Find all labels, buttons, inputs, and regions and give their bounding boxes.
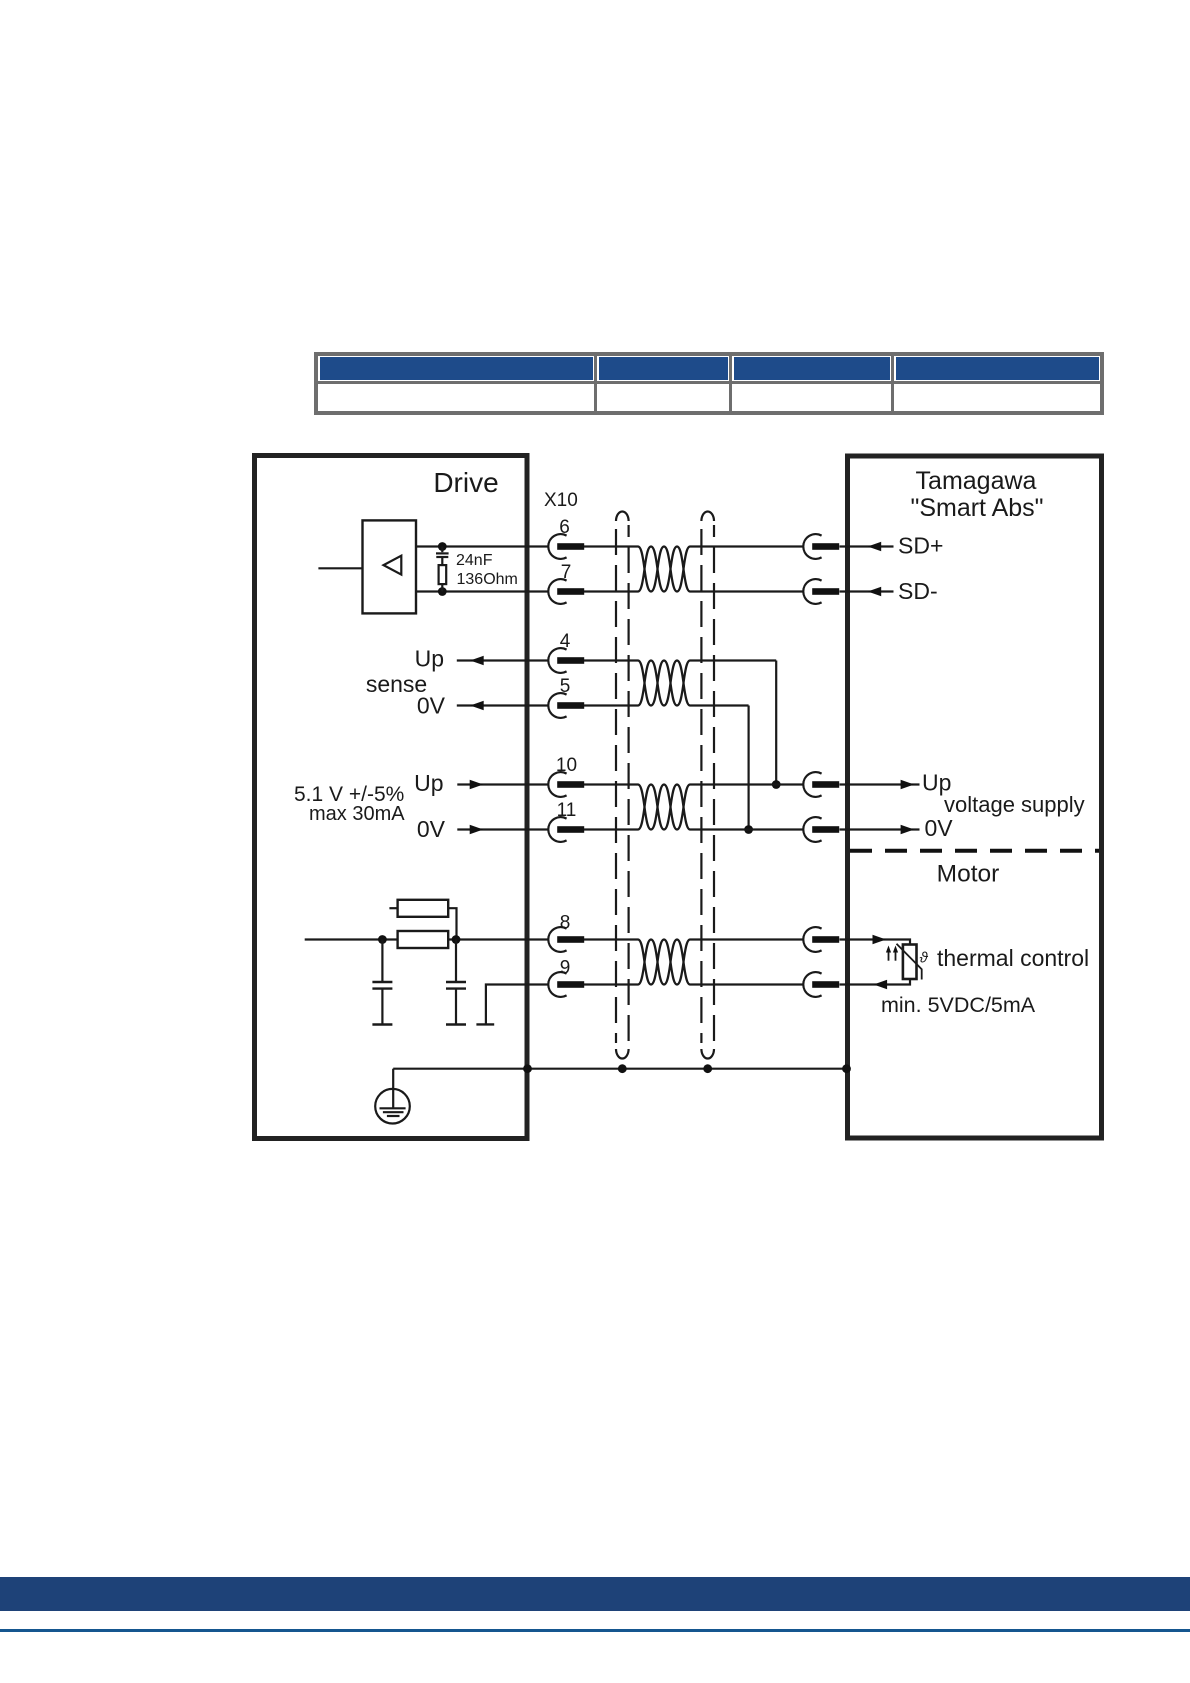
connector pin 9 drive side [548, 972, 584, 997]
connector pin 0V encoder side [803, 817, 839, 842]
svg-text:Up: Up [415, 646, 444, 672]
wire pin11 to cable [584, 828, 638, 830]
svg-text:8: 8 [560, 913, 571, 934]
table header cell 3 blue [734, 357, 890, 380]
svg-text:24nF: 24nF [456, 552, 493, 569]
twisted pair supply [638, 785, 690, 830]
wire cable to SD- connector [690, 590, 804, 592]
wire pin5 with arrow into drive [457, 704, 549, 706]
svg-text:voltage supply: voltage supply [944, 792, 1085, 817]
node junction sense Up [772, 780, 781, 789]
connector thermal+ encoder side [803, 927, 839, 952]
table column divider 3 [891, 356, 894, 411]
connector pin 6 drive side [548, 534, 584, 559]
svg-text:SD+: SD+ [898, 533, 943, 559]
ground wire vertical [392, 1069, 394, 1109]
connector pin 10 drive side [548, 772, 584, 797]
temperature up arrows [886, 946, 898, 961]
svg-text:"Smart Abs": "Smart Abs" [910, 494, 1043, 522]
connector thermal- encoder side [803, 972, 839, 997]
table column divider 2 [729, 356, 732, 411]
node junction sense 0V [744, 825, 753, 834]
svg-text:7: 7 [561, 562, 572, 583]
capacitor C left with ground [372, 940, 392, 1025]
amp buffer U1 [363, 520, 417, 613]
resistor R upper [398, 900, 449, 917]
wire pin7 to cable [584, 590, 638, 592]
thermistor diagonal [897, 944, 922, 980]
shield ground bus [393, 1068, 847, 1070]
Tamagawa box [848, 456, 1102, 1138]
table outer border [314, 352, 1104, 415]
node shield left screen [618, 1064, 627, 1073]
table column divider 1 [594, 356, 597, 411]
twisted pair thermal [638, 940, 690, 985]
connector pin 5 drive side [548, 693, 584, 718]
thermal wire and arrow in encoder [840, 940, 911, 945]
svg-text:Tamagawa: Tamagawa [916, 467, 1037, 495]
table row divider [318, 381, 1100, 384]
svg-text:max 30mA: max 30mA [309, 803, 405, 825]
svg-text:Motor: Motor [937, 861, 1000, 888]
node junction R right [452, 935, 461, 944]
wire pin6 inside drive [416, 545, 549, 547]
Drive box [255, 456, 528, 1139]
pin9 ground termination [476, 985, 549, 1025]
resistor R upper right lead [448, 908, 456, 939]
svg-text:9: 9 [560, 958, 571, 979]
protective earth symbol [375, 1089, 410, 1124]
wire pin10 to cable [584, 783, 638, 785]
thermistor RT [903, 945, 917, 980]
wire cable to thermal+ connector [690, 938, 804, 940]
wire sense Up to junction [690, 659, 776, 661]
svg-text:6: 6 [559, 517, 570, 538]
svg-text:SD-: SD- [898, 578, 938, 604]
table header cell 2 blue [599, 357, 728, 380]
shield screen right [701, 512, 714, 1059]
wire pin6 to cable [584, 545, 638, 547]
wire sense 0V to junction [690, 704, 749, 706]
connector pin SD+ encoder side [803, 534, 839, 559]
svg-text:0V: 0V [417, 816, 446, 842]
shield screen left [616, 512, 629, 1059]
wire cable to Up connector [690, 783, 804, 785]
svg-text:11: 11 [557, 800, 577, 821]
wire pin8 to cable [584, 938, 638, 940]
node shield right screen [703, 1064, 712, 1073]
svg-text:4: 4 [560, 631, 571, 652]
svg-text:136Ohm: 136Ohm [457, 571, 518, 588]
connector pin 7 drive side [548, 579, 584, 604]
connector pin 11 drive side [548, 817, 584, 842]
sense 0V vertical wire [747, 706, 749, 830]
wire pin4 with arrow into drive [457, 659, 549, 661]
wire cable to SD+ connector [690, 545, 804, 547]
resistor R upper left stub [389, 907, 397, 909]
table header cell 1 blue [320, 357, 593, 380]
twisted pair SD [638, 547, 690, 592]
resistor R lower [398, 931, 449, 948]
Motor boundary dashed line [850, 849, 1099, 853]
svg-text:10: 10 [556, 755, 577, 776]
connector pin 4 drive side [548, 648, 584, 673]
node junction pin7 [438, 587, 447, 596]
svg-text:min. 5VDC/5mA: min. 5VDC/5mA [881, 993, 1036, 1017]
svg-text:ϑ: ϑ [920, 950, 929, 967]
connector pin 8 drive side [548, 927, 584, 952]
capacitor C right with ground [446, 940, 466, 1025]
svg-text:X10: X10 [544, 490, 578, 511]
wire cable to thermal- connector [690, 983, 804, 985]
node junction pin6 [438, 542, 447, 551]
wire pin9 to cable [584, 983, 638, 985]
svg-text:Up: Up [414, 770, 443, 796]
0V wire and arrow encoder [840, 828, 920, 830]
footer band [0, 1577, 1190, 1611]
wire pin5 to cable [584, 704, 638, 706]
footer rule [0, 1629, 1190, 1632]
thermal return wire and arrow [840, 979, 911, 985]
svg-text:5: 5 [560, 676, 571, 697]
wire pin10 with arrow out of drive [457, 783, 549, 785]
svg-text:thermal control: thermal control [937, 945, 1089, 971]
connector pin SD- encoder side [803, 579, 839, 604]
svg-text:0V: 0V [925, 815, 954, 841]
parameter table [314, 352, 1104, 415]
node shield at drive edge [523, 1064, 532, 1073]
wire pin7 inside drive [416, 590, 549, 592]
wire pin8 inside drive [305, 938, 398, 940]
svg-text:0V: 0V [417, 693, 446, 719]
amp triangle [384, 556, 402, 575]
wire pin4 to cable [584, 659, 638, 661]
amp input wire [318, 567, 362, 569]
SD- wire and arrow [840, 590, 894, 592]
resistor 136Ohm [439, 565, 447, 591]
twisted pair sense [638, 661, 690, 706]
capacitor 24nF [436, 547, 449, 566]
table header cell 4 blue [896, 357, 1099, 380]
connector pin Up encoder side [803, 772, 839, 797]
svg-text:Drive: Drive [433, 467, 498, 498]
wire cable to 0V connector [690, 828, 804, 830]
SD+ wire and arrow [840, 545, 894, 547]
Up wire and arrow encoder [840, 783, 920, 785]
node shield at encoder edge [842, 1064, 851, 1073]
sense Up vertical wire [775, 661, 777, 785]
node junction R left [378, 935, 387, 944]
wire pin11 with arrow out of drive [457, 828, 549, 830]
